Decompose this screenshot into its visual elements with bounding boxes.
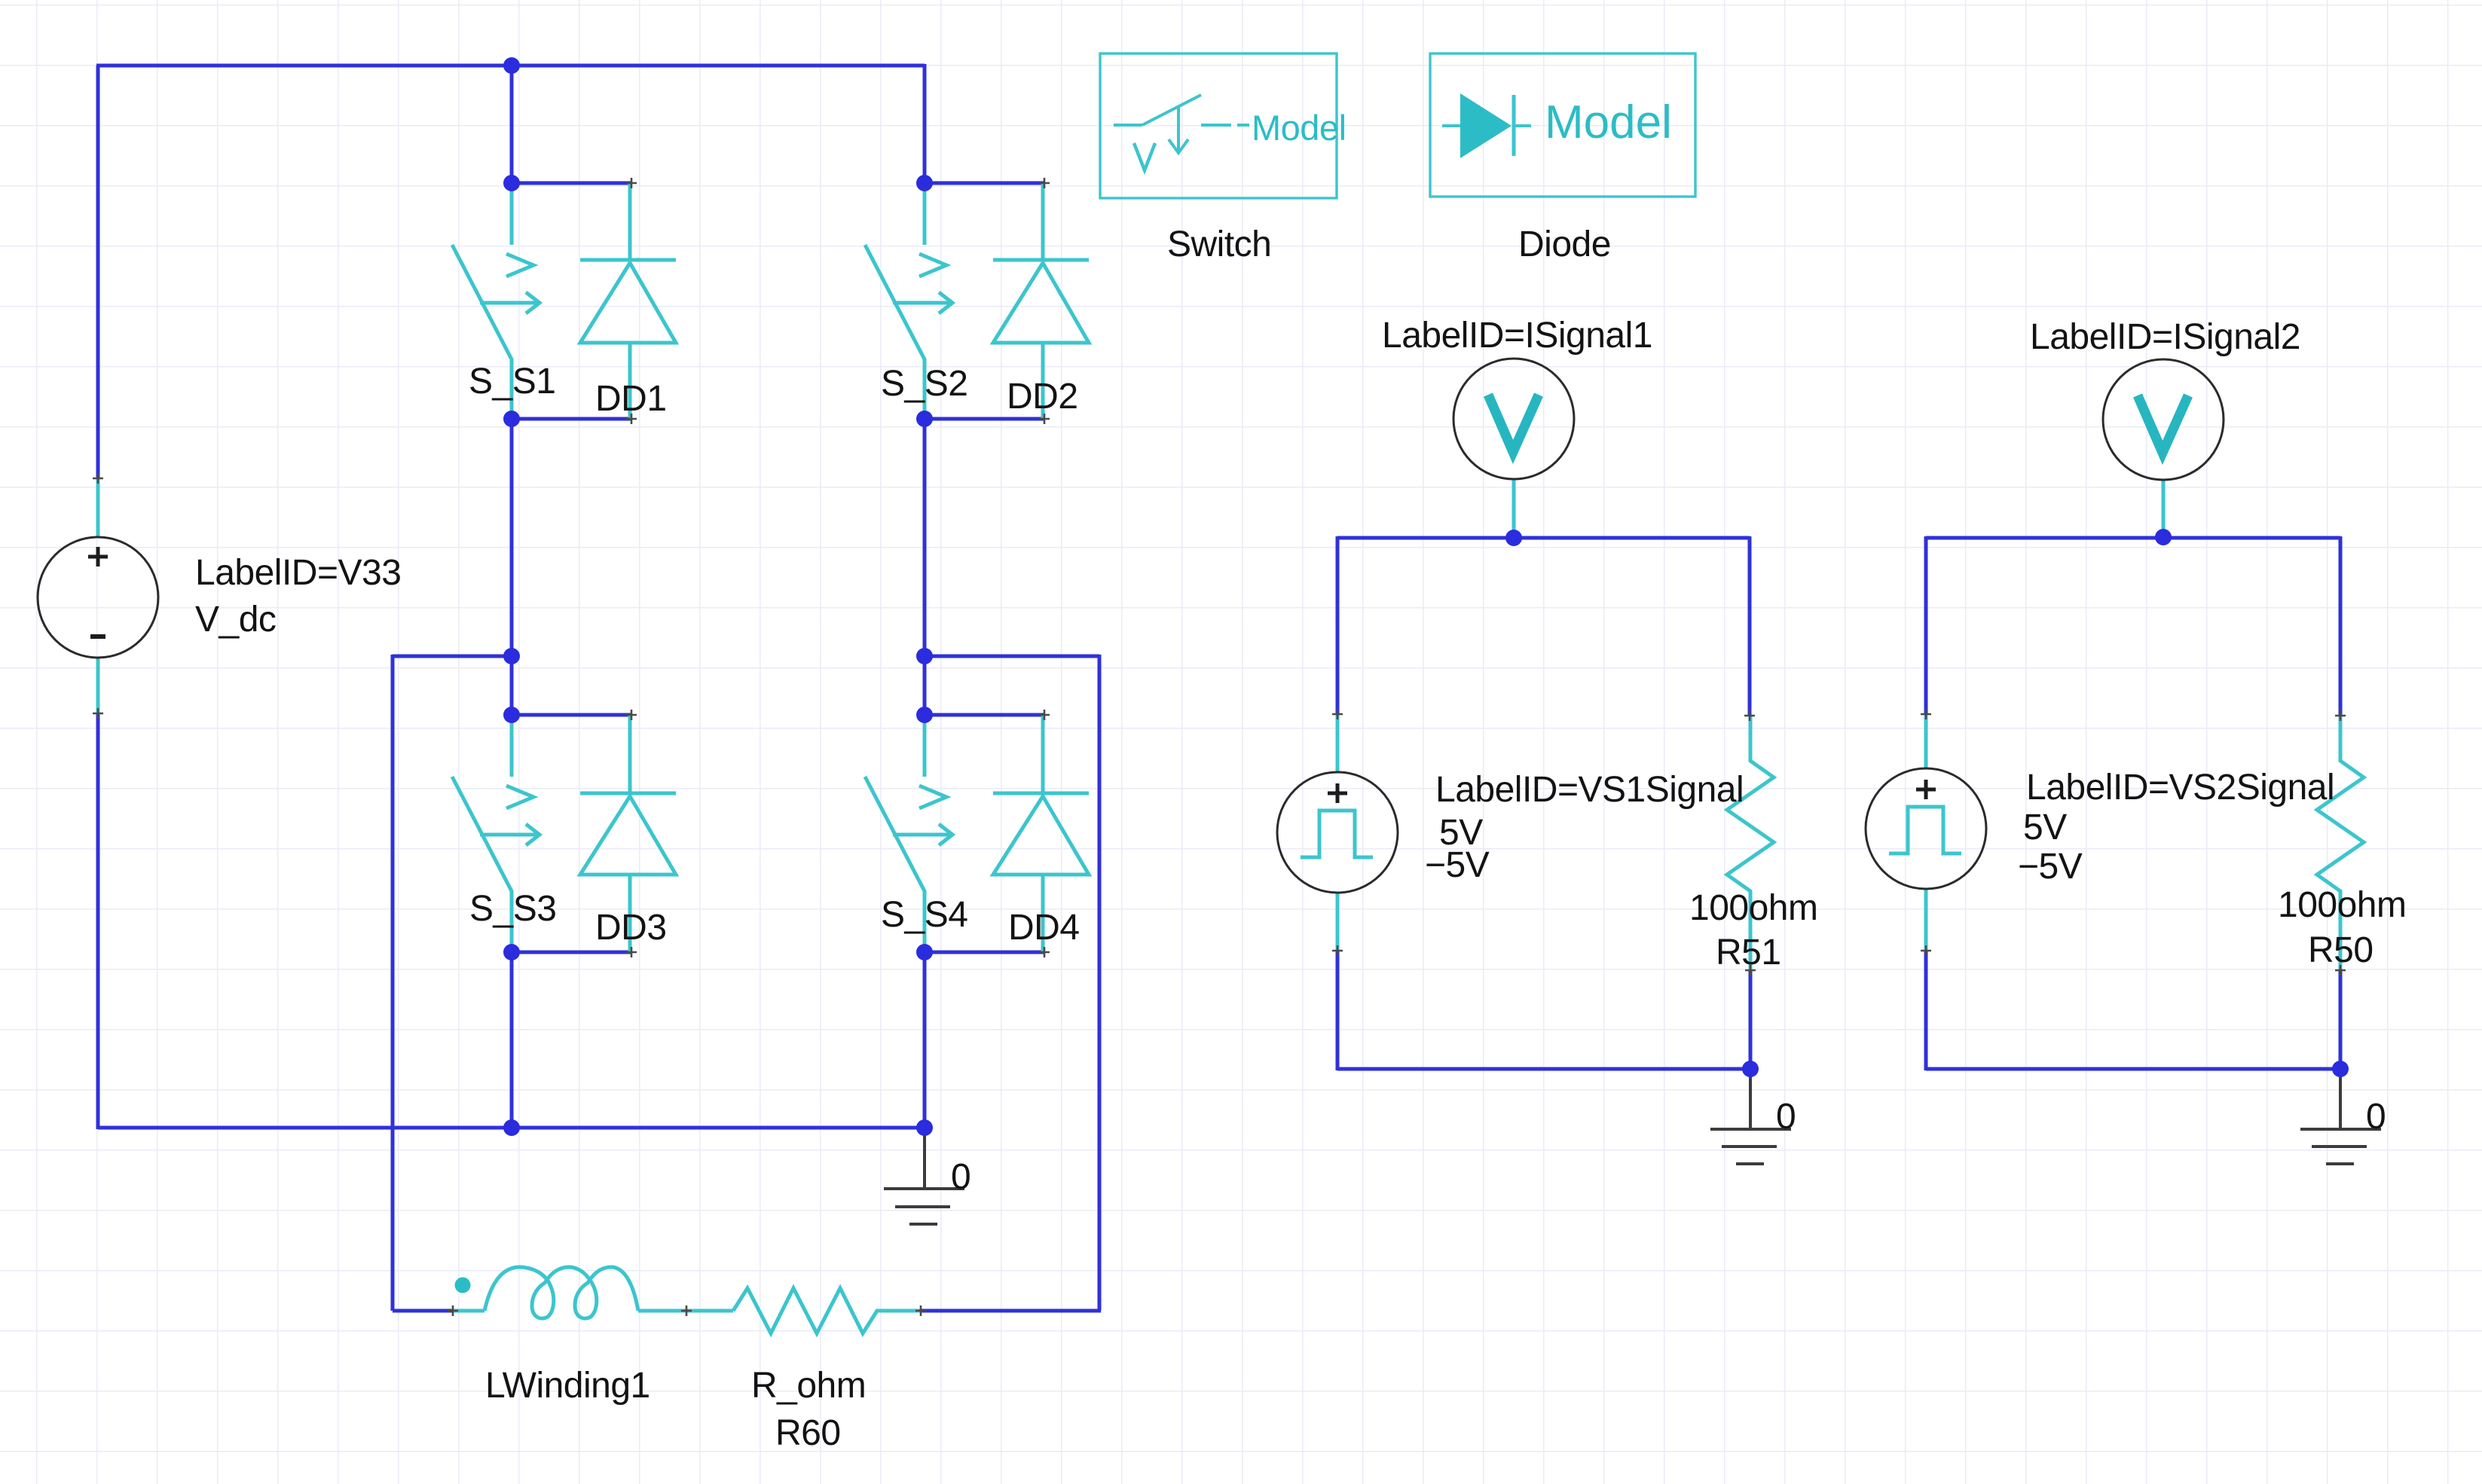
svg-text:R50: R50 bbox=[2308, 930, 2373, 970]
wire rung S3 bottom bbox=[512, 951, 631, 954]
VS2Signal plus sign bbox=[1916, 780, 1936, 799]
pulse source VS1Signal stubs bbox=[1336, 714, 1340, 951]
ground 0 (H-bridge) bbox=[884, 1129, 964, 1224]
svg-text:LWinding1: LWinding1 bbox=[485, 1366, 650, 1406]
V33 minus sign bbox=[90, 634, 105, 639]
wire c1 left upper bbox=[1336, 536, 1340, 714]
diode DD1 bbox=[580, 183, 676, 419]
wire c2 right upper bbox=[2339, 536, 2343, 716]
VS2Signal pulse waveform bbox=[1889, 807, 1961, 853]
svg-text:Switch: Switch bbox=[1167, 224, 1271, 264]
wire S3 bottom drop bbox=[510, 952, 514, 1128]
node top bus / S1 bbox=[503, 57, 520, 74]
svg-text:0: 0 bbox=[1776, 1097, 1796, 1137]
wire c1 left lower bbox=[1336, 951, 1340, 1070]
resistor R60 (R_ohm) bbox=[733, 1288, 921, 1333]
svg-text:V_dc: V_dc bbox=[195, 600, 276, 640]
inductor LWinding1 bbox=[453, 1267, 733, 1318]
switch S_S1 bbox=[452, 185, 539, 419]
wire S2 top drop bbox=[923, 64, 927, 183]
voltage source V33 (V_dc) stubs bbox=[96, 478, 100, 713]
switch S_S3 bbox=[452, 716, 539, 952]
ground 0 (circuit 1) bbox=[1710, 1070, 1791, 1164]
svg-text:R_ohm: R_ohm bbox=[751, 1366, 866, 1406]
voltmeter ISignal1 stub bbox=[1512, 479, 1516, 538]
node S1 top rung bbox=[503, 175, 520, 191]
wire mid rung right bbox=[925, 655, 1099, 658]
svg-text:S_S1: S_S1 bbox=[469, 362, 555, 402]
svg-text:LabelID=VS2Signal: LabelID=VS2Signal bbox=[2026, 768, 2334, 808]
wire S1-S3 link bbox=[510, 419, 514, 715]
resistor R50 (100ohm) bbox=[2317, 716, 2364, 970]
voltage source V33 circle bbox=[38, 537, 158, 658]
node S3 bottom bbox=[503, 944, 520, 960]
node S1 bottom bbox=[503, 411, 520, 427]
wire c2 right lower bbox=[2339, 970, 2343, 1070]
svg-text:LabelID=ISignal1: LabelID=ISignal1 bbox=[1382, 316, 1652, 356]
voltmeter ISignal2 stub bbox=[2162, 480, 2166, 537]
svg-text:S_S3: S_S3 bbox=[469, 889, 556, 929]
svg-text:Model: Model bbox=[1252, 108, 1346, 148]
node S4 top bbox=[916, 707, 933, 723]
wire rung S1 top bbox=[512, 182, 631, 185]
terminal tick marks bbox=[93, 178, 2346, 1316]
wire rung S3 top bbox=[512, 713, 631, 717]
VS1Signal pulse waveform bbox=[1301, 811, 1373, 857]
wire c2 top bbox=[1926, 536, 2340, 540]
wire LWinding1 left lead (blue) bbox=[393, 1309, 453, 1313]
node c1 ground junction bbox=[1742, 1061, 1759, 1077]
pulse source VS1Signal circle bbox=[1277, 772, 1398, 893]
voltmeter ISignal1 circle bbox=[1453, 359, 1574, 479]
node c1 voltmeter junction bbox=[1505, 530, 1522, 546]
node S4 bottom bbox=[916, 944, 933, 960]
node bottom bus / ground bbox=[916, 1119, 933, 1136]
wire bottom bus bbox=[98, 1126, 925, 1130]
svg-text:DD1: DD1 bbox=[595, 379, 667, 419]
svg-text:DD4: DD4 bbox=[1008, 908, 1080, 948]
node mid rung left bbox=[503, 648, 520, 664]
wire rung S4 top bbox=[925, 713, 1044, 717]
node c2 ground junction bbox=[2332, 1061, 2349, 1077]
wire rung S4 bottom bbox=[925, 951, 1044, 954]
wire R60 right lead (blue) bbox=[921, 1309, 1101, 1313]
node mid rung right bbox=[916, 648, 933, 664]
svg-text:100ohm: 100ohm bbox=[2278, 885, 2406, 925]
pulse source VS2Signal circle bbox=[1866, 768, 1986, 889]
wire right feed down bbox=[1098, 655, 1102, 1311]
legend switch symbol bbox=[1114, 95, 1249, 170]
node S3 top bbox=[503, 707, 520, 723]
svg-text:DD2: DD2 bbox=[1007, 377, 1078, 417]
wire rung S2 bottom bbox=[925, 417, 1044, 421]
ground 0 (circuit 2) bbox=[2300, 1070, 2381, 1164]
wire V33 bottom drop bbox=[96, 713, 100, 1129]
wire rung S2 top bbox=[925, 182, 1044, 185]
svg-text:LabelID=VS1Signal: LabelID=VS1Signal bbox=[1435, 770, 1744, 810]
svg-text:0: 0 bbox=[951, 1157, 970, 1197]
diode DD4 bbox=[993, 715, 1089, 952]
inductor LWinding1 polarity dot bbox=[455, 1278, 471, 1293]
wire c1 bottom bbox=[1337, 1067, 1750, 1071]
voltmeter ISignal1 V mark bbox=[1488, 395, 1539, 452]
svg-text:S_S4: S_S4 bbox=[881, 895, 967, 935]
svg-text:R51: R51 bbox=[1716, 933, 1781, 973]
svg-text:0: 0 bbox=[2366, 1097, 2386, 1137]
wire c2 left upper bbox=[1924, 536, 1928, 714]
diode DD2 bbox=[993, 183, 1089, 419]
svg-text:LabelID=ISignal2: LabelID=ISignal2 bbox=[2030, 317, 2300, 357]
svg-text:R60: R60 bbox=[775, 1413, 841, 1453]
svg-text:5V: 5V bbox=[2023, 808, 2067, 847]
svg-text:LabelID=V33: LabelID=V33 bbox=[195, 553, 401, 593]
svg-text:DD3: DD3 bbox=[595, 908, 667, 948]
wire left riser (V33 top to top bus) bbox=[96, 66, 100, 478]
diode DD3 bbox=[580, 715, 676, 952]
wire S1 top drop bbox=[510, 66, 514, 183]
switch S_S4 bbox=[865, 716, 952, 952]
pulse source VS2Signal stubs bbox=[1924, 714, 1928, 951]
wire c1 right lower bbox=[1749, 970, 1753, 1070]
wire c2 left lower bbox=[1924, 951, 1928, 1070]
svg-text:100ohm: 100ohm bbox=[1689, 888, 1817, 928]
V33 plus sign bbox=[88, 547, 108, 566]
wire rung S1 bottom bbox=[512, 417, 631, 421]
wire c2 bottom bbox=[1926, 1067, 2340, 1071]
wire c1 right upper bbox=[1748, 536, 1752, 716]
legend box Diode bbox=[1430, 53, 1695, 197]
resistor R51 (100ohm) bbox=[1727, 716, 1774, 970]
node c2 voltmeter junction bbox=[2155, 529, 2172, 545]
node S2 top rung bbox=[916, 175, 933, 191]
wire top bus bbox=[96, 64, 925, 68]
junction node dots bbox=[503, 57, 2349, 1136]
wire c1 top bbox=[1337, 536, 1750, 540]
wire left feed down bbox=[391, 655, 395, 1311]
switch S_S2 bbox=[865, 185, 952, 419]
svg-text:S_S2: S_S2 bbox=[881, 364, 967, 404]
legend diode symbol bbox=[1442, 93, 1531, 158]
wire mid rung left bbox=[393, 655, 512, 658]
node bottom bus / S3 drop bbox=[503, 1119, 520, 1136]
wire S2-S4 link bbox=[923, 419, 927, 715]
svg-text:Diode: Diode bbox=[1518, 224, 1611, 264]
wire S4 bottom drop bbox=[923, 952, 927, 1128]
legend box Switch bbox=[1100, 53, 1337, 198]
voltmeter ISignal2 circle bbox=[2103, 359, 2224, 480]
VS1Signal plus sign bbox=[1328, 783, 1347, 803]
svg-text:Model: Model bbox=[1545, 96, 1672, 148]
node S2 bottom bbox=[916, 411, 933, 427]
svg-text:−5V: −5V bbox=[2018, 847, 2083, 887]
svg-text:−5V: −5V bbox=[1425, 845, 1490, 885]
voltmeter ISignal2 V mark bbox=[2138, 395, 2188, 453]
